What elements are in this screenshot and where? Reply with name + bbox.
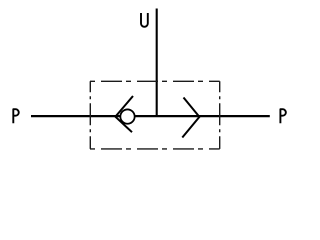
wire: port P (left) to check valve bbox=[31, 115, 120, 117]
label P (left port) bbox=[13, 109, 18, 122]
wire: check valve to port P (right) bbox=[135, 115, 270, 117]
check valve ball bbox=[120, 109, 134, 123]
label P (right port) bbox=[280, 109, 285, 122]
enclosure (dash-dot assembly boundary) right edge bbox=[219, 81, 221, 149]
label U (top port) bbox=[141, 14, 148, 27]
check valve seat (V notch) bbox=[115, 96, 133, 132]
enclosure (dash-dot assembly boundary) top edge bbox=[90, 80, 220, 82]
flow arrow (to right port P) bbox=[182, 98, 199, 138]
wire: port U (vertical) bbox=[156, 9, 158, 117]
enclosure (dash-dot assembly boundary) bottom edge bbox=[90, 148, 220, 150]
enclosure (dash-dot assembly boundary) left edge bbox=[89, 81, 91, 149]
